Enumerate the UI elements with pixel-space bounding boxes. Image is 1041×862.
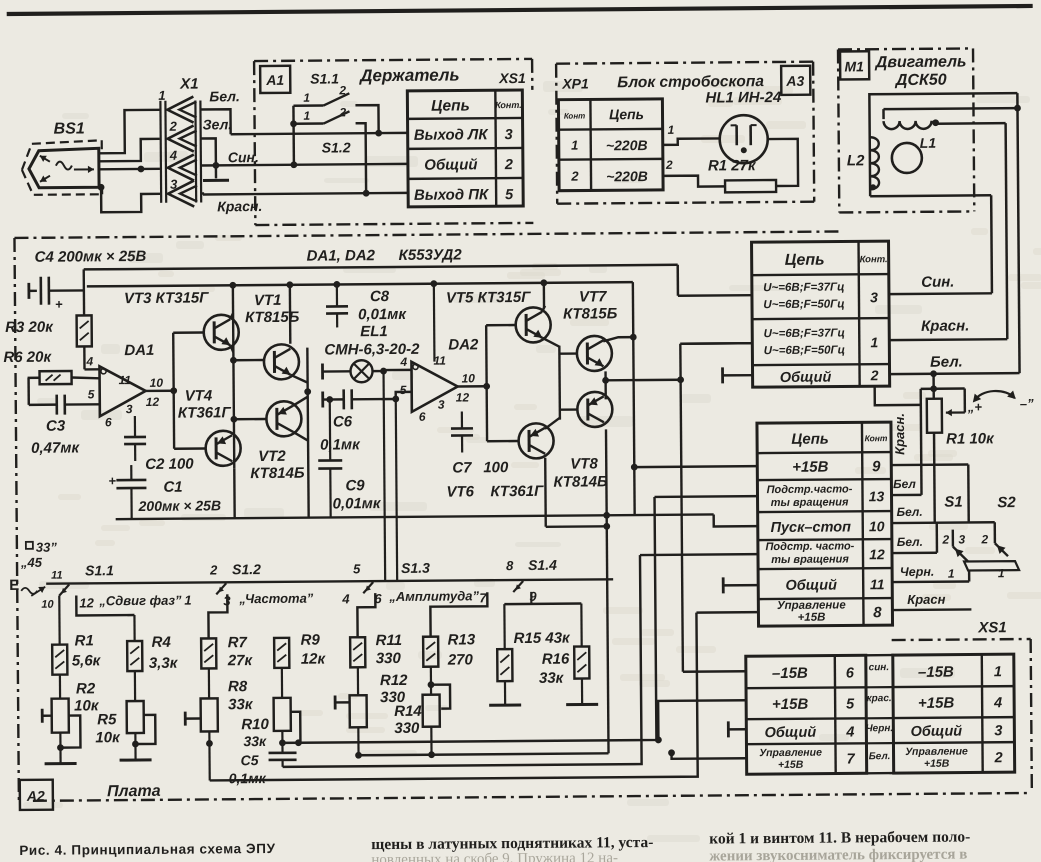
svg-text:R2: R2: [76, 680, 96, 697]
svg-text:3: 3: [870, 289, 878, 305]
svg-text:X1: X1: [179, 76, 198, 93]
svg-text:5: 5: [88, 387, 95, 401]
svg-text:0,47мк: 0,47мк: [31, 439, 80, 456]
svg-text:R5: R5: [97, 711, 117, 728]
svg-text:4: 4: [845, 724, 854, 740]
svg-text:12: 12: [79, 595, 94, 610]
svg-text:~220В: ~220В: [606, 137, 648, 153]
svg-text:33”: 33”: [36, 540, 58, 555]
svg-text:+15В: +15В: [778, 759, 804, 771]
svg-text:33к: 33к: [228, 696, 254, 713]
svg-text:9: 9: [872, 458, 881, 475]
svg-text:„+: „+: [967, 399, 983, 414]
svg-text:L1: L1: [920, 135, 937, 151]
svg-text:12: 12: [456, 390, 470, 404]
svg-text:Рис. 4. Принципиальная схема Э: Рис. 4. Принципиальная схема ЭПУ: [19, 841, 275, 858]
svg-text:Управление: Управление: [777, 599, 846, 612]
svg-text:Выход ПК: Выход ПК: [414, 186, 490, 204]
svg-text:10: 10: [41, 599, 54, 611]
svg-text:Общий: Общий: [424, 156, 477, 173]
svg-text:4: 4: [169, 148, 178, 163]
svg-text:U~=6В;F=37Гц: U~=6В;F=37Гц: [763, 281, 844, 294]
svg-text:R3 20к: R3 20к: [5, 319, 54, 336]
svg-text:Общий: Общий: [780, 370, 832, 386]
svg-text:Бел.: Бел.: [897, 505, 923, 519]
svg-text:А2: А2: [26, 788, 45, 804]
svg-text:Держатель: Держатель: [358, 65, 459, 85]
svg-text:Бел.: Бел.: [897, 535, 923, 549]
svg-text:DA1: DA1: [124, 342, 154, 359]
svg-text:крас.: крас.: [867, 693, 892, 704]
svg-text:C2 100: C2 100: [145, 456, 194, 473]
svg-text:КТ361Г: КТ361Г: [490, 483, 544, 500]
svg-text:VT6: VT6: [446, 483, 474, 500]
svg-text:Цепь: Цепь: [609, 106, 644, 122]
svg-text:Конт.: Конт.: [495, 100, 522, 110]
svg-text:КТ361Г: КТ361Г: [178, 404, 232, 421]
svg-text:3,3к: 3,3к: [149, 655, 179, 672]
svg-text:S1: S1: [944, 494, 962, 511]
svg-text:S1.3: S1.3: [401, 560, 430, 576]
svg-text:~220В: ~220В: [606, 168, 648, 184]
svg-text:C9: C9: [345, 477, 365, 494]
svg-text:„45: „45: [20, 555, 43, 570]
svg-text:Подстр.часто-: Подстр.часто-: [767, 483, 853, 496]
svg-text:10: 10: [462, 371, 476, 385]
svg-text:2: 2: [665, 158, 673, 172]
svg-text:VT4: VT4: [185, 387, 213, 404]
svg-text:2: 2: [941, 533, 949, 547]
svg-text:10к: 10к: [74, 697, 100, 714]
svg-text:12: 12: [869, 546, 885, 562]
svg-text:R13: R13: [448, 631, 476, 648]
svg-text:С5: С5: [241, 752, 259, 768]
svg-text:Управление: Управление: [905, 745, 968, 757]
svg-text:5: 5: [846, 696, 855, 712]
svg-text:1: 1: [571, 138, 578, 153]
svg-text:2: 2: [504, 157, 513, 173]
svg-text:+: +: [108, 473, 116, 488]
svg-text:+15В: +15В: [924, 758, 950, 770]
svg-text:5: 5: [353, 561, 361, 576]
svg-text:„Амплитуда”: „Амплитуда”: [388, 588, 479, 604]
svg-text:R15 43к: R15 43к: [514, 630, 572, 647]
svg-text:КТ815Б: КТ815Б: [245, 309, 300, 326]
svg-text:Бел.: Бел.: [869, 751, 891, 762]
svg-text:3: 3: [958, 533, 965, 547]
svg-text:S1.4: S1.4: [528, 557, 557, 573]
svg-text:S2: S2: [997, 494, 1016, 511]
svg-text:E: E: [9, 577, 19, 594]
svg-text:1: 1: [303, 109, 310, 123]
svg-text:12к: 12к: [301, 651, 327, 668]
svg-text:1: 1: [158, 88, 165, 103]
svg-text:C4 200мк × 25В: C4 200мк × 25В: [35, 248, 147, 266]
svg-text:VT1: VT1: [254, 292, 282, 309]
svg-text:Зел.: Зел.: [203, 116, 233, 132]
svg-text:11: 11: [870, 576, 885, 592]
svg-text:Черн.: Черн.: [900, 565, 935, 579]
svg-text:VT7: VT7: [579, 288, 607, 305]
svg-text:330: 330: [376, 650, 402, 667]
svg-text:жении звукосниматель фиксирует: жении звукосниматель фиксируется в: [709, 847, 967, 862]
svg-text:–15В: –15В: [772, 665, 808, 682]
svg-text:C6: C6: [333, 413, 353, 430]
svg-text:3: 3: [438, 398, 445, 412]
svg-text:U~=6В;F=37Гц: U~=6В;F=37Гц: [764, 327, 845, 340]
svg-text:Красн.: Красн.: [921, 317, 969, 334]
svg-text:1: 1: [184, 593, 191, 608]
svg-text:5,6к: 5,6к: [72, 652, 102, 669]
svg-text:8: 8: [873, 604, 882, 621]
svg-text:КТ814Б: КТ814Б: [553, 473, 608, 490]
svg-text:Красн.: Красн.: [892, 413, 907, 455]
svg-text:2: 2: [870, 367, 879, 383]
svg-text:0,1мк: 0,1мк: [229, 770, 267, 786]
svg-text:R8: R8: [228, 678, 248, 695]
svg-text:ДСК50: ДСК50: [894, 72, 947, 89]
svg-text:2: 2: [338, 83, 346, 97]
svg-text:DA1, DA2: DA1, DA2: [307, 247, 376, 265]
svg-text:Бел: Бел: [893, 477, 916, 491]
svg-text:К553УД2: К553УД2: [399, 246, 463, 263]
svg-text:EL1: EL1: [360, 323, 388, 340]
svg-text:13: 13: [869, 488, 885, 504]
svg-text:Двигатель: Двигатель: [874, 53, 967, 71]
svg-text:XS1: XS1: [498, 70, 526, 86]
svg-text:XS1: XS1: [977, 619, 1006, 636]
svg-text:А3: А3: [785, 73, 804, 89]
svg-text:„Сдвиг фаз”: „Сдвиг фаз”: [98, 593, 182, 609]
svg-text:U~=6В;F=50Гц: U~=6В;F=50Гц: [764, 344, 845, 357]
svg-text:+15В: +15В: [798, 612, 826, 624]
svg-text:–”: –”: [1020, 396, 1034, 411]
svg-text:Общий: Общий: [765, 725, 817, 741]
svg-text:4: 4: [341, 591, 350, 606]
svg-text:0,01мк: 0,01мк: [333, 495, 382, 512]
svg-text:C1: C1: [163, 479, 182, 496]
svg-text:27к: 27к: [227, 652, 254, 669]
svg-text:5: 5: [400, 383, 407, 397]
svg-text:–15В: –15В: [918, 664, 954, 681]
svg-text:R9: R9: [301, 632, 321, 649]
svg-text:R1: R1: [75, 632, 94, 649]
svg-text:Управление: Управление: [759, 747, 822, 759]
svg-text:0,01мк: 0,01мк: [358, 306, 407, 323]
svg-text:Плата: Плата: [107, 783, 161, 800]
svg-text:3: 3: [994, 723, 1002, 739]
svg-text:Цепь: Цепь: [785, 252, 825, 269]
svg-text:+15В: +15В: [772, 696, 809, 713]
svg-text:4: 4: [993, 695, 1002, 711]
svg-text:270: 270: [447, 651, 474, 668]
svg-text:330: 330: [394, 720, 420, 737]
svg-text:R16: R16: [542, 651, 570, 668]
svg-text:BS1: BS1: [54, 120, 85, 137]
svg-text:КТ814Б: КТ814Б: [250, 465, 305, 482]
svg-text:R1 27к: R1 27к: [708, 157, 757, 174]
svg-text:5: 5: [505, 187, 514, 203]
svg-text:новленных на скобе 9. Пружина: новленных на скобе 9. Пружина 12 на-: [371, 850, 618, 862]
svg-text:4: 4: [85, 354, 93, 368]
svg-text:R7: R7: [228, 634, 248, 651]
svg-text:4: 4: [399, 355, 407, 369]
svg-text:R4: R4: [152, 634, 172, 651]
svg-text:1: 1: [998, 566, 1005, 580]
svg-text:U~=6В;F=50Гц: U~=6В;F=50Гц: [763, 298, 844, 311]
svg-text:R1 10к: R1 10к: [946, 430, 995, 447]
svg-text:3: 3: [170, 177, 178, 192]
svg-text:VT8: VT8: [570, 455, 598, 472]
svg-text:ты вращения: ты вращения: [771, 496, 849, 509]
svg-text:S1.1: S1.1: [85, 562, 114, 578]
svg-text:C8: C8: [370, 288, 390, 305]
svg-text:+15В: +15В: [792, 459, 829, 476]
svg-text:2: 2: [570, 169, 579, 184]
svg-text:М1: М1: [844, 58, 864, 74]
svg-text:R10: R10: [241, 716, 269, 733]
svg-text:Общий: Общий: [785, 578, 837, 594]
svg-text:8: 8: [506, 558, 514, 573]
svg-text:10к: 10к: [95, 729, 121, 746]
svg-text:VT2: VT2: [258, 448, 286, 465]
svg-text:HL1 ИН-24: HL1 ИН-24: [705, 89, 782, 107]
svg-text:R6 20к: R6 20к: [3, 349, 52, 366]
svg-text:1: 1: [948, 567, 955, 581]
svg-text:Бел.: Бел.: [209, 88, 240, 104]
svg-text:7: 7: [846, 751, 855, 767]
svg-text:ХР1: ХР1: [561, 75, 589, 91]
svg-text:Конт: Конт: [564, 111, 586, 120]
svg-text:R14: R14: [394, 703, 422, 720]
svg-text:S1.2: S1.2: [232, 561, 261, 577]
svg-text:VT3 КТ315Г: VT3 КТ315Г: [124, 289, 209, 307]
svg-text:12: 12: [146, 395, 160, 409]
svg-text:3: 3: [505, 127, 513, 143]
svg-text:+: +: [55, 297, 63, 312]
svg-text:C7: C7: [452, 459, 472, 476]
svg-text:Общий: Общий: [911, 724, 963, 740]
svg-text:2: 2: [338, 105, 346, 119]
svg-text:Красн: Красн: [907, 592, 946, 607]
svg-text:кой 1 и винтом 11. В нерабочем: кой 1 и винтом 11. В нерабочем поло-: [709, 828, 970, 847]
svg-text:6: 6: [419, 410, 426, 424]
svg-text:1: 1: [994, 664, 1002, 680]
svg-text:+15В: +15В: [918, 695, 955, 712]
svg-text:Конт: Конт: [865, 433, 888, 443]
svg-text:Конт.: Конт.: [860, 254, 888, 265]
svg-text:2: 2: [993, 750, 1002, 766]
svg-text:R11: R11: [376, 632, 403, 649]
svg-text:11: 11: [51, 570, 63, 582]
svg-text:3: 3: [126, 402, 133, 416]
svg-text:R12: R12: [380, 672, 408, 689]
svg-text:VT5 КТ315Г: VT5 КТ315Г: [446, 289, 531, 307]
svg-text:1: 1: [870, 334, 878, 350]
svg-text:1: 1: [668, 123, 675, 137]
svg-text:10: 10: [150, 376, 164, 390]
svg-text:Бел.: Бел.: [930, 354, 963, 371]
svg-text:10: 10: [869, 518, 885, 534]
svg-text:ты вращения: ты вращения: [771, 553, 849, 566]
svg-text:6: 6: [105, 415, 112, 429]
svg-text:Цепь: Цепь: [431, 97, 470, 114]
svg-text:6: 6: [846, 665, 855, 681]
svg-text:син.: син.: [869, 662, 890, 673]
svg-text:11: 11: [119, 373, 132, 387]
svg-text:S1.2: S1.2: [322, 139, 351, 155]
svg-text:S1.1: S1.1: [310, 70, 339, 86]
svg-text:А1: А1: [265, 72, 284, 88]
svg-text:100: 100: [483, 459, 509, 476]
svg-text:КТ815Б: КТ815Б: [563, 305, 618, 322]
svg-text:Син.: Син.: [921, 274, 954, 291]
svg-text:33к: 33к: [243, 733, 267, 749]
svg-text:Выход ЛК: Выход ЛК: [414, 126, 490, 144]
svg-text:2: 2: [980, 532, 988, 546]
svg-text:1: 1: [303, 91, 310, 105]
svg-text:DA2: DA2: [448, 336, 479, 353]
svg-text:Подстр. часто-: Подстр. часто-: [765, 540, 854, 553]
svg-text:2: 2: [169, 119, 178, 134]
svg-text:2: 2: [209, 562, 218, 577]
svg-text:L2: L2: [847, 152, 865, 169]
svg-text:Пуск–стоп: Пуск–стоп: [770, 519, 851, 536]
svg-text:0,1мк: 0,1мк: [320, 436, 361, 453]
svg-text:Черн.: Черн.: [866, 723, 894, 734]
svg-text:C3: C3: [46, 418, 66, 435]
svg-text:„Частота”: „Частота”: [238, 591, 314, 607]
svg-text:33к: 33к: [539, 670, 565, 687]
svg-text:200мк × 25В: 200мк × 25В: [138, 497, 222, 514]
svg-text:Цепь: Цепь: [791, 431, 829, 448]
